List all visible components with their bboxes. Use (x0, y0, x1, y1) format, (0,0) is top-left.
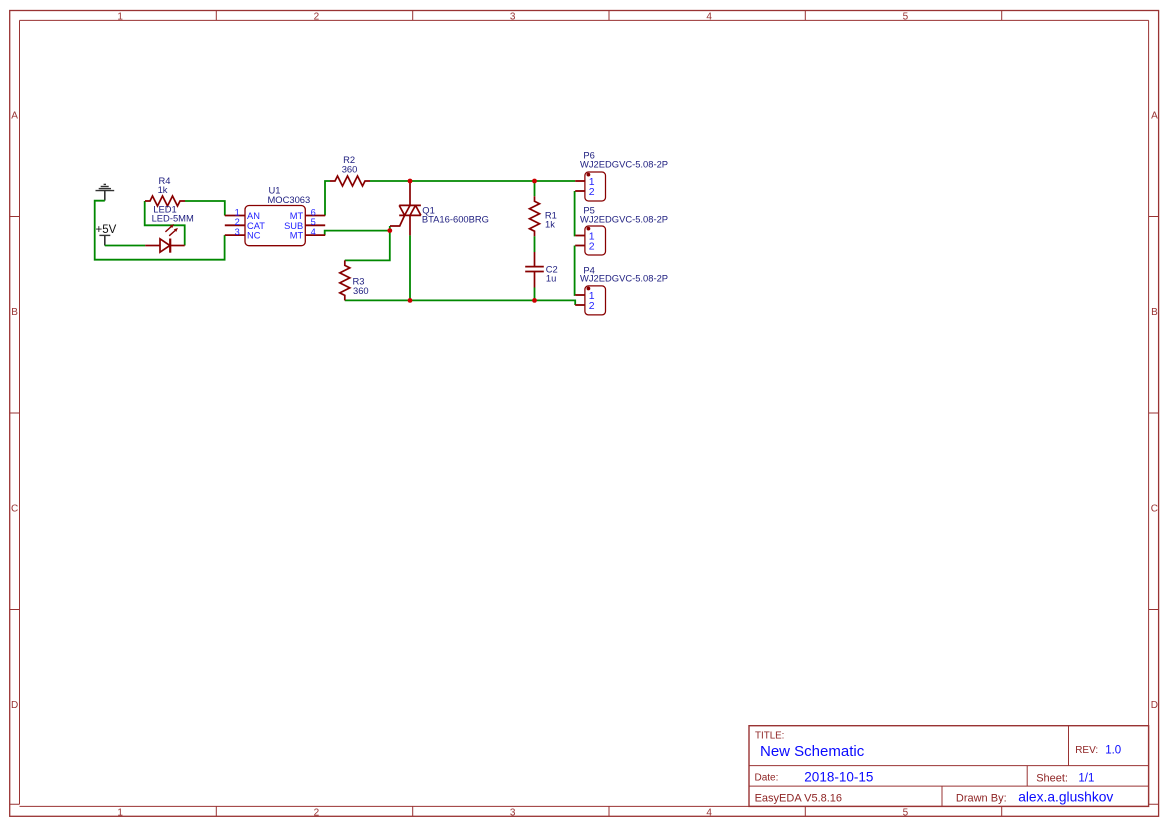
LED LED1 (145, 239, 185, 253)
wire gate node to R3 (345, 226, 390, 260)
svg-text:2: 2 (589, 300, 595, 312)
svg-text:Drawn By:: Drawn By: (956, 792, 1007, 804)
svg-text:REV:: REV: (1075, 745, 1098, 756)
junction node top R1 (532, 179, 537, 184)
svg-text:MT: MT (290, 211, 304, 221)
svg-text:3: 3 (235, 227, 240, 237)
LED LED1 arrow 1 (165, 224, 174, 232)
svg-text:A: A (1151, 111, 1158, 122)
svg-text:1u: 1u (546, 273, 556, 284)
U1 pin 4 stub (305, 234, 325, 236)
frame inner corner jogs (10, 803, 1159, 805)
svg-text:TITLE:: TITLE: (755, 730, 784, 741)
svg-text:NC: NC (247, 231, 261, 241)
svg-text:6: 6 (311, 207, 316, 217)
svg-text:MOC3063: MOC3063 (268, 194, 311, 205)
svg-text:5: 5 (903, 11, 909, 22)
svg-text:Date:: Date: (755, 773, 779, 784)
U1 pin 6 stub (305, 215, 325, 217)
U1 pin 5 stub (305, 224, 325, 226)
P5 pin 2 stub (575, 245, 585, 247)
frame inner border bottom (20, 805, 1149, 807)
wire top net R2 to P6 pin1 (370, 180, 575, 182)
junction node top Q1 (408, 179, 413, 184)
title block row line 2 (749, 785, 1149, 787)
ground (96, 184, 115, 200)
P4 pin 2 stub (575, 304, 585, 306)
svg-text:360: 360 (342, 164, 358, 175)
svg-text:D: D (11, 700, 18, 711)
svg-text:Sheet:: Sheet: (1036, 772, 1068, 784)
P4 pin 1 stub (575, 294, 585, 296)
svg-text:5: 5 (903, 808, 909, 819)
svg-text:WJ2EDGVC-5.08-2P: WJ2EDGVC-5.08-2P (580, 213, 668, 224)
svg-text:4: 4 (706, 808, 712, 819)
svg-text:360: 360 (353, 285, 369, 296)
wire gnd net (95, 201, 225, 260)
svg-text:WJ2EDGVC-5.08-2P: WJ2EDGVC-5.08-2P (580, 273, 668, 284)
svg-text:SUB: SUB (284, 221, 303, 231)
title block Sheet divider (1026, 766, 1028, 787)
title block row line 1 (749, 765, 1149, 767)
svg-text:LED-5MM: LED-5MM (152, 213, 194, 224)
connector P5 pin1 marker (587, 227, 591, 231)
svg-text:alex.a.glushkov: alex.a.glushkov (1018, 790, 1113, 805)
svg-text:EasyEDA V5.8.16: EasyEDA V5.8.16 (755, 792, 842, 804)
connector P4 body (585, 286, 606, 315)
connector P6 pin1 marker (587, 173, 591, 177)
svg-text:B: B (1151, 307, 1158, 318)
svg-text:AN: AN (247, 211, 260, 221)
svg-text:C: C (1151, 504, 1158, 515)
frame column ticks bottom (216, 806, 1001, 816)
P5 pin 1 stub (575, 235, 585, 237)
op-amp U1 body (245, 206, 305, 246)
junction node gate (387, 228, 392, 233)
wire C2 to bottom net (534, 288, 536, 301)
svg-text:BTA16-600BRG: BTA16-600BRG (422, 214, 489, 225)
U1 pin 1 stub (225, 215, 245, 217)
P6 pin 2 stub (575, 190, 585, 192)
resistor R2 (330, 176, 370, 186)
wire LED1 cathode to R4 (145, 201, 185, 246)
svg-text:5: 5 (311, 217, 316, 227)
svg-text:1: 1 (235, 207, 240, 217)
svg-text:1k: 1k (545, 218, 555, 229)
svg-text:2: 2 (589, 240, 595, 252)
resistor R1 (530, 196, 540, 236)
LED LED1 arrow 2 (169, 228, 178, 236)
svg-text:4: 4 (706, 11, 712, 22)
svg-text:MT: MT (290, 231, 304, 241)
connector P5 body (585, 226, 606, 255)
wire U1 pin6 to R2 (325, 181, 330, 216)
wire R4 to U1 pin1 (185, 201, 225, 216)
U1 pin 2 stub (225, 224, 245, 226)
svg-text:A: A (11, 111, 18, 122)
svg-text:1k: 1k (158, 184, 168, 195)
frame column ticks top (216, 11, 1001, 21)
wire R1 to C2 (534, 236, 536, 252)
svg-text:2018-10-15: 2018-10-15 (804, 770, 873, 785)
svg-text:D: D (1151, 700, 1158, 711)
resistor R4 (145, 196, 185, 206)
svg-text:4: 4 (311, 227, 316, 237)
svg-text:2: 2 (314, 11, 320, 22)
title block DrawnBy divider (941, 786, 943, 806)
frame inner border top (20, 19, 1149, 21)
P6 pin 1 stub (575, 180, 585, 182)
junction node bottom C2 (532, 298, 537, 303)
wire top net to R1 (534, 181, 536, 196)
svg-text:2: 2 (589, 186, 595, 198)
capacitor C2 (525, 252, 544, 288)
svg-text:WJ2EDGVC-5.08-2P: WJ2EDGVC-5.08-2P (580, 158, 668, 169)
svg-text:1/1: 1/1 (1078, 772, 1094, 784)
frame row ticks right (1149, 217, 1159, 610)
svg-text:1: 1 (117, 11, 123, 22)
frame inner border left (19, 20, 21, 804)
svg-text:CAT: CAT (247, 221, 265, 231)
junction node bottom Q1 (408, 298, 413, 303)
svg-text:C: C (11, 504, 18, 515)
svg-text:2: 2 (314, 808, 320, 819)
svg-text:+5V: +5V (96, 224, 117, 236)
svg-text:1.0: 1.0 (1105, 745, 1121, 757)
wire U1 pin4 to gate node (325, 231, 390, 236)
resistor R3 (340, 260, 350, 300)
title block outline (749, 726, 1149, 807)
transistor Q1 triac (390, 181, 421, 235)
wire bottom net R3 to P4 pin2 (345, 300, 575, 305)
svg-text:1: 1 (117, 808, 123, 819)
wire P6 pin2 to P5 pin1 (574, 191, 577, 236)
svg-text:New Schematic: New Schematic (760, 743, 865, 760)
frame inner border right (1148, 20, 1150, 804)
connector P6 body (585, 172, 606, 201)
svg-text:2: 2 (235, 217, 240, 227)
wire Q1 MT1 to bottom net (409, 235, 411, 300)
wire +5V to LED1 anode (105, 245, 145, 247)
wire P5 pin2 to P4 pin1 (574, 246, 577, 296)
U1 pin 3 stub (225, 234, 245, 236)
connector P4 pin1 marker (587, 287, 591, 291)
svg-text:3: 3 (510, 11, 516, 22)
svg-text:B: B (11, 307, 18, 318)
power +5V symbol (99, 235, 110, 245)
frame row ticks left (10, 217, 20, 610)
svg-text:3: 3 (510, 808, 516, 819)
title block REV divider (1068, 726, 1070, 766)
